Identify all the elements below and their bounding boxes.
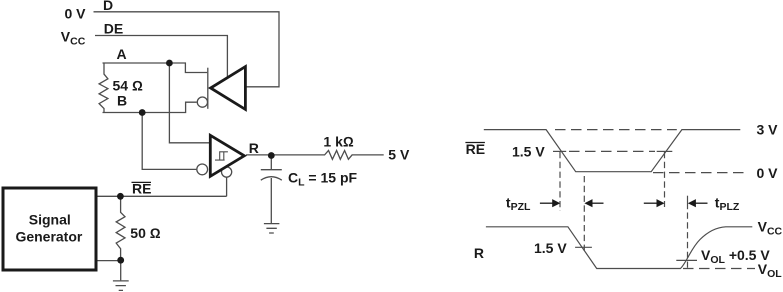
svg-text:DE: DE <box>104 21 123 37</box>
svg-text:R: R <box>474 245 484 261</box>
svg-text:A: A <box>117 46 127 62</box>
svg-text:B: B <box>117 93 127 109</box>
svg-text:1.5 V: 1.5 V <box>512 144 545 160</box>
svg-text:54 Ω: 54 Ω <box>113 78 143 94</box>
svg-text:0 V: 0 V <box>65 5 87 21</box>
svg-text:1 kΩ: 1 kΩ <box>323 134 353 150</box>
svg-text:50 Ω: 50 Ω <box>130 225 160 241</box>
svg-text:1.5 V: 1.5 V <box>534 240 567 256</box>
svg-text:3 V: 3 V <box>757 122 779 138</box>
svg-text:Generator: Generator <box>15 229 82 245</box>
svg-text:5 V: 5 V <box>388 146 410 162</box>
svg-text:D: D <box>103 0 113 13</box>
svg-text:RE: RE <box>466 141 485 157</box>
svg-text:R: R <box>249 140 259 156</box>
svg-text:RE: RE <box>132 181 151 197</box>
svg-text:0 V: 0 V <box>757 165 779 181</box>
svg-text:Signal: Signal <box>29 212 71 228</box>
